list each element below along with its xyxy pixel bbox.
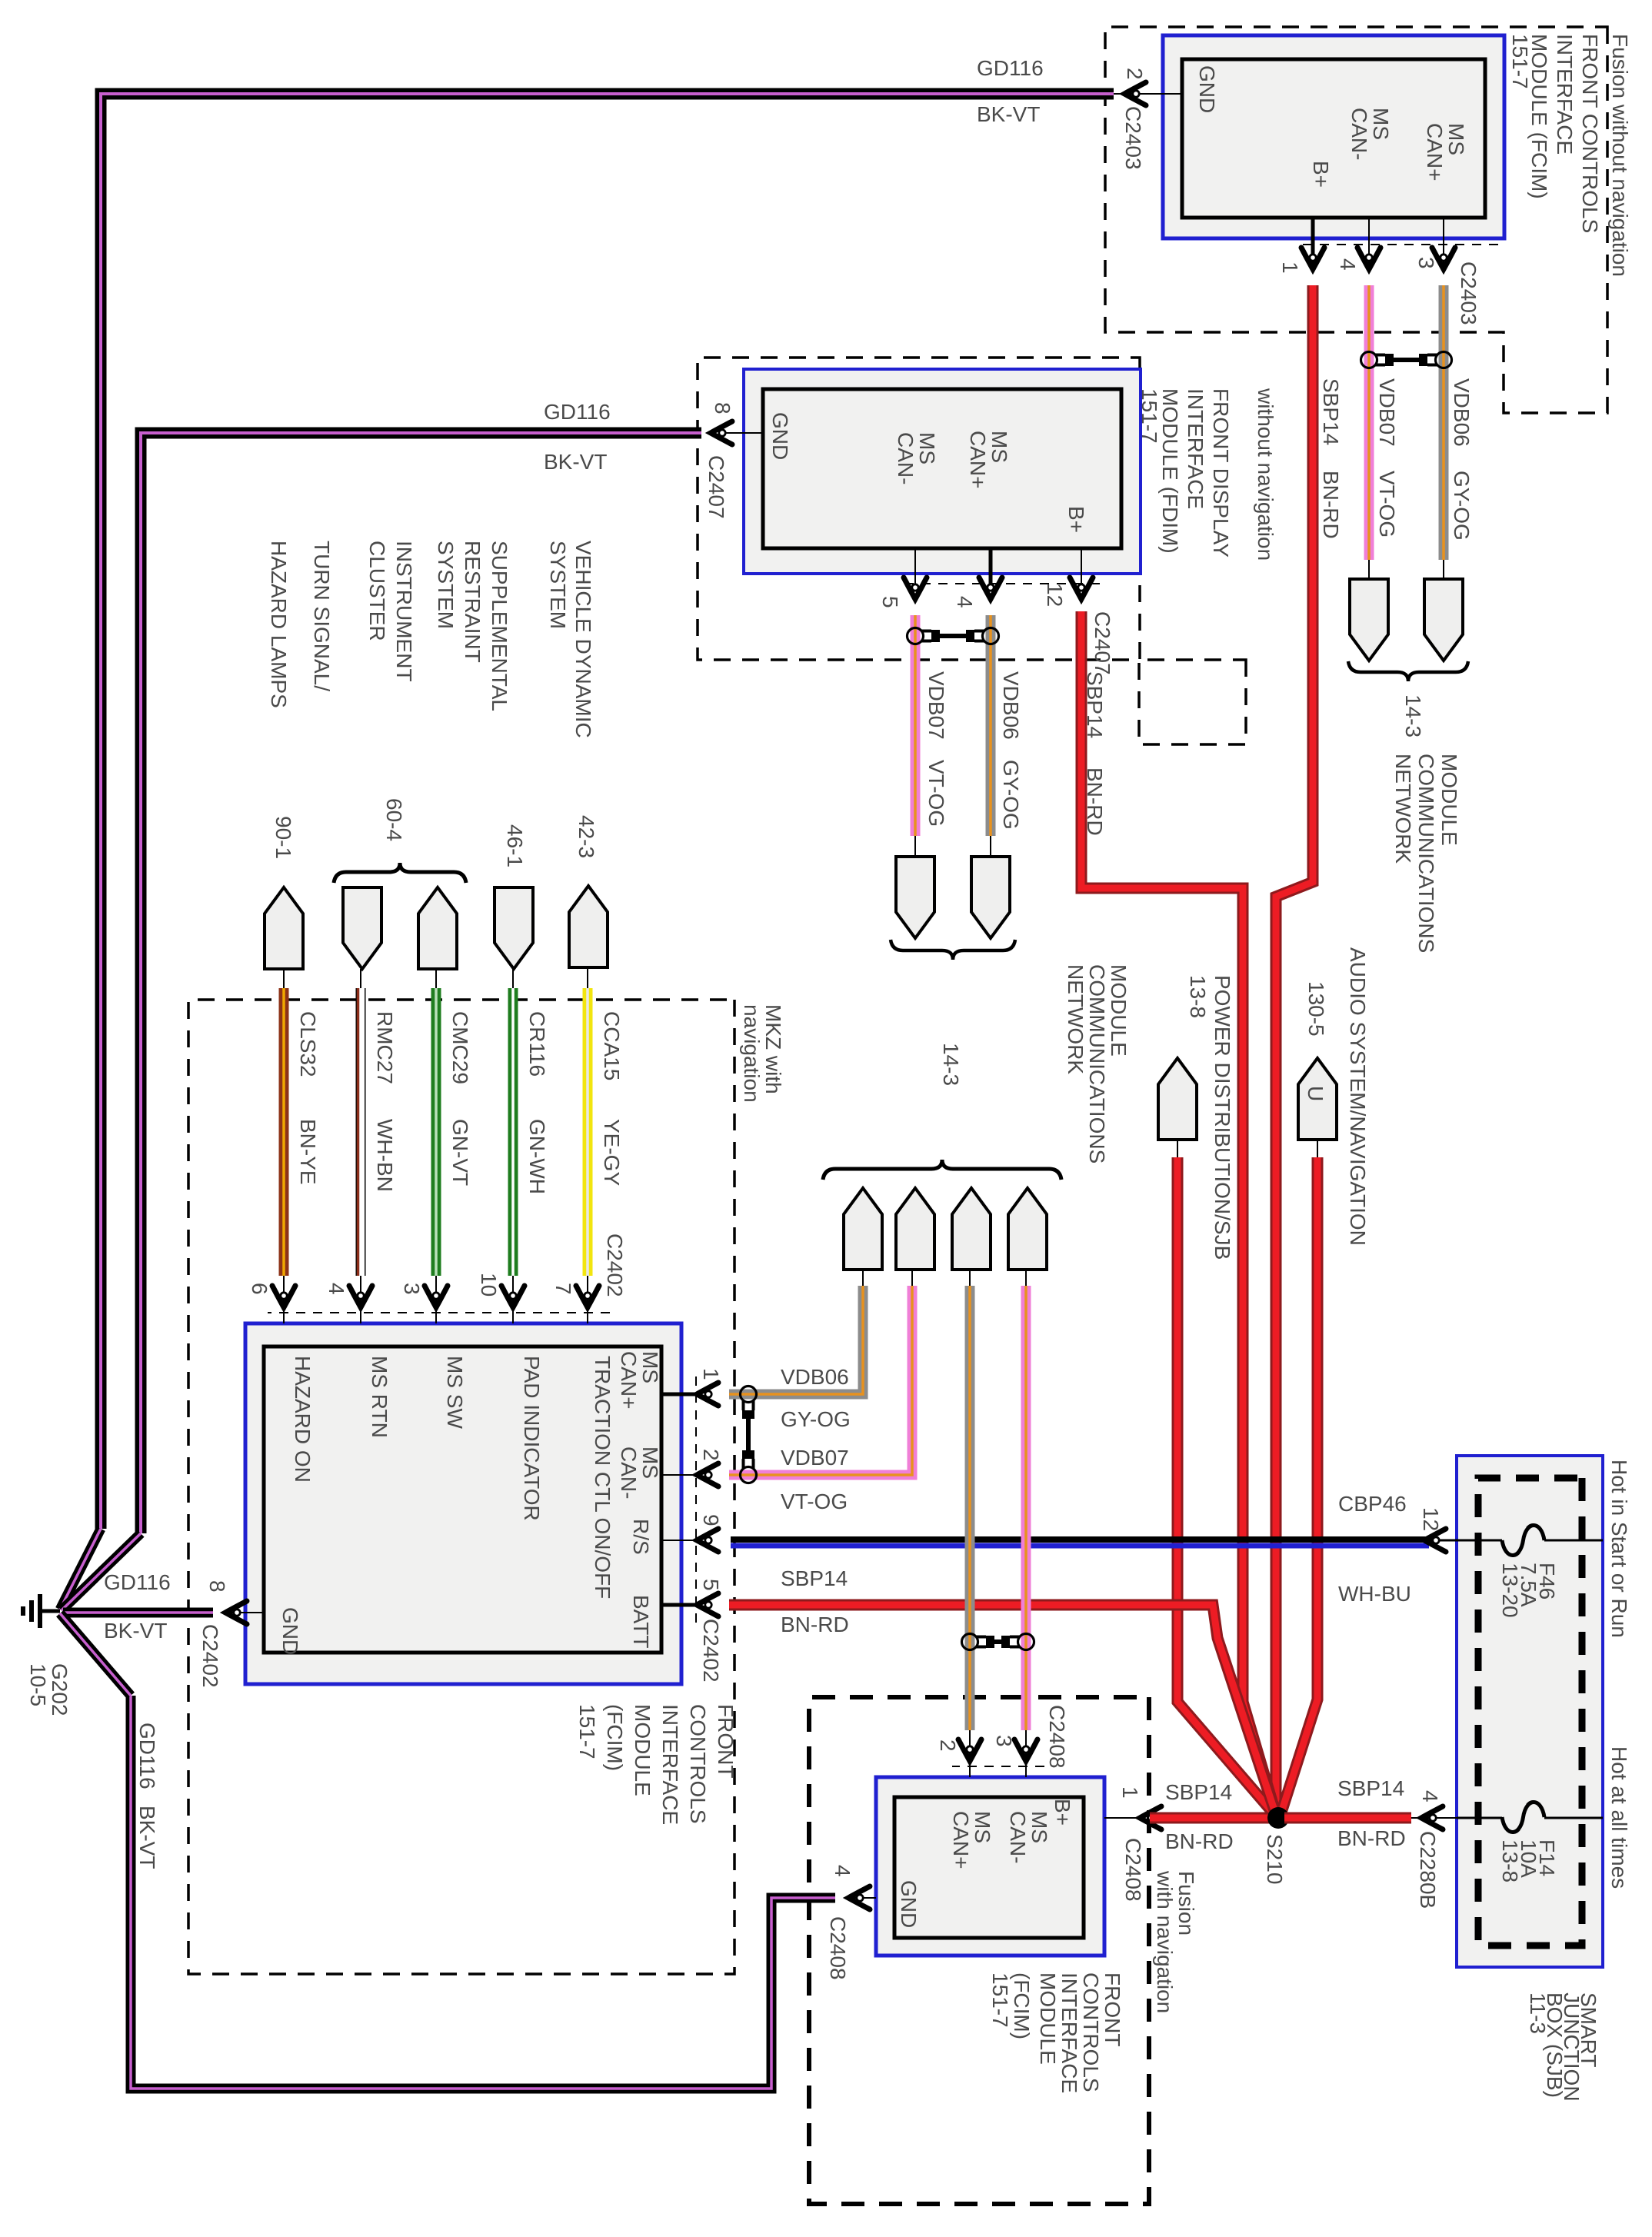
wire U3 BATT stub pin 5 bbox=[661, 1603, 698, 1607]
svg-text:CAN-: CAN- bbox=[1006, 1811, 1030, 1863]
svg-text:GND: GND bbox=[278, 1607, 302, 1655]
svg-text:1: 1 bbox=[1118, 1786, 1142, 1799]
off-page connector VDB07 to module comms network bbox=[1350, 579, 1388, 661]
svg-text:INTERFACE: INTERFACE bbox=[658, 1704, 682, 1825]
module U1 FCIM (Fusion without navigation) blue box bbox=[1163, 35, 1504, 238]
svg-text:10-5: 10-5 bbox=[26, 1663, 50, 1706]
wire CBP46 WH-BU R/S bbox=[731, 1536, 1429, 1543]
svg-text:VT-OG: VT-OG bbox=[924, 760, 948, 827]
svg-text:151-7: 151-7 bbox=[575, 1704, 599, 1759]
svg-text:Fusion: Fusion bbox=[1174, 1871, 1198, 1936]
wire GD116 BK-VT from U3 GND bbox=[63, 1608, 213, 1618]
svg-text:1: 1 bbox=[1278, 261, 1302, 274]
svg-text:SYSTEM: SYSTEM bbox=[434, 541, 458, 629]
wire CR116 GN-WH bbox=[508, 988, 518, 1276]
svg-text:13-20: 13-20 bbox=[1498, 1563, 1522, 1618]
svg-text:TURN SIGNAL/: TURN SIGNAL/ bbox=[310, 541, 334, 691]
connector C2403 dashed line bbox=[1298, 244, 1498, 245]
svg-text:MS RTN: MS RTN bbox=[368, 1356, 391, 1438]
svg-text:SBP14: SBP14 bbox=[1337, 1776, 1404, 1800]
wire GD116 BK-VT from U2 GND bbox=[141, 433, 701, 1533]
wire VDB07 VT-OG to pentagon bbox=[729, 1286, 912, 1475]
wire VDB06 GY-OG to pentagon bbox=[729, 1286, 863, 1394]
svg-text:C2408: C2408 bbox=[1121, 1838, 1145, 1902]
svg-text:3: 3 bbox=[400, 1283, 424, 1295]
svg-text:151-7: 151-7 bbox=[1508, 34, 1532, 89]
svg-text:C2403: C2403 bbox=[1457, 261, 1480, 325]
wire U4 GND stub pin 4 bbox=[850, 1897, 876, 1899]
svg-text:BK-VT: BK-VT bbox=[544, 450, 607, 474]
svg-text:13-8: 13-8 bbox=[1498, 1839, 1522, 1882]
svg-text:C2408: C2408 bbox=[826, 1916, 850, 1980]
svg-text:SBP14: SBP14 bbox=[1083, 671, 1107, 738]
svg-text:6: 6 bbox=[248, 1283, 271, 1295]
module U2 inner box bbox=[763, 389, 1121, 548]
connector C2407 dashed line bbox=[902, 583, 1100, 584]
svg-text:MODULE (FDIM): MODULE (FDIM) bbox=[1158, 388, 1182, 554]
fuse F46 7.5A bbox=[1504, 1526, 1543, 1556]
svg-text:46-1: 46-1 bbox=[503, 824, 527, 867]
svg-text:POWER DISTRIBUTION/SJB: POWER DISTRIBUTION/SJB bbox=[1211, 975, 1234, 1260]
wire SBP14 BN-RD power distribution to S210 bbox=[1177, 1140, 1178, 1157]
svg-text:VDB07: VDB07 bbox=[781, 1446, 849, 1470]
svg-text:SBP14: SBP14 bbox=[781, 1566, 848, 1590]
off-page connector VDB07 (U2) bbox=[896, 857, 934, 938]
off-page connector VDB06 to U3 pin1 bbox=[844, 1188, 882, 1270]
svg-text:12: 12 bbox=[1043, 583, 1067, 607]
svg-text:TRACTION CTL ON/OFF: TRACTION CTL ON/OFF bbox=[591, 1356, 615, 1599]
svg-text:COMMUNICATIONS: COMMUNICATIONS bbox=[1414, 754, 1438, 953]
wire U1 GND stub bbox=[1114, 93, 1182, 95]
svg-text:MODULE: MODULE bbox=[631, 1704, 654, 1796]
wire RMC27 WH-BN bbox=[360, 969, 361, 988]
svg-text:5: 5 bbox=[699, 1579, 723, 1591]
svg-text:MS: MS bbox=[1444, 123, 1468, 155]
wire inside SJB to F14 bbox=[1457, 1817, 1603, 1819]
connector C2408 dashed line bbox=[952, 1766, 1044, 1767]
wire U2 B+ stub pin 12 bbox=[1081, 548, 1082, 591]
twisted pair symbol U3 pins 1-2 bbox=[741, 1386, 757, 1403]
svg-text:MS: MS bbox=[1369, 108, 1393, 140]
svg-text:151-7: 151-7 bbox=[988, 1972, 1012, 2028]
wire VDB07 VT-OG (U2 pin5) bbox=[911, 615, 921, 836]
wire GD116 BK-VT from U1 GND bbox=[101, 94, 1114, 1529]
svg-text:C2407: C2407 bbox=[1091, 611, 1114, 675]
off-page connector CLS32 bbox=[265, 887, 303, 969]
wire U2 GND stub pin 8 bbox=[725, 432, 763, 434]
SJB inner heavy dashed box bbox=[1478, 1478, 1582, 1946]
svg-text:BN-RD: BN-RD bbox=[1083, 767, 1107, 836]
svg-text:90-1: 90-1 bbox=[271, 816, 295, 859]
wire CLS32 BN-YE bbox=[279, 988, 289, 1276]
smart junction box SJB blue box bbox=[1457, 1456, 1603, 1967]
svg-text:151-7: 151-7 bbox=[1137, 388, 1161, 444]
svg-text:INTERFACE: INTERFACE bbox=[1184, 388, 1207, 509]
off-page connector VDB06 (U2) bbox=[971, 857, 1010, 938]
svg-text:VDB06: VDB06 bbox=[1450, 378, 1474, 447]
svg-text:U: U bbox=[1304, 1086, 1327, 1101]
svg-text:BN-RD: BN-RD bbox=[1337, 1826, 1406, 1850]
svg-text:7: 7 bbox=[551, 1283, 575, 1295]
svg-text:9: 9 bbox=[699, 1514, 723, 1526]
off-page connector CCA15 bbox=[569, 886, 608, 967]
svg-text:GN-WH: GN-WH bbox=[525, 1119, 549, 1194]
svg-text:BN-RD: BN-RD bbox=[1165, 1829, 1234, 1853]
svg-text:G202: G202 bbox=[48, 1663, 72, 1716]
wire CBP46 inside SJB to F46 bbox=[1429, 1540, 1603, 1542]
svg-text:CLUSTER: CLUSTER bbox=[365, 541, 389, 641]
FCIM without navigation dashed box U1 outline bbox=[1105, 27, 1607, 413]
svg-text:CBP46: CBP46 bbox=[1338, 1492, 1407, 1516]
svg-text:R/S: R/S bbox=[629, 1519, 653, 1555]
svg-text:BATT: BATT bbox=[629, 1595, 653, 1648]
svg-text:MS: MS bbox=[638, 1446, 662, 1479]
svg-text:MS SW: MS SW bbox=[443, 1356, 467, 1429]
wire U3 GND stub pin 8 bbox=[227, 1612, 264, 1613]
wire GD116 BK-VT from U4 GND bbox=[131, 1696, 835, 2089]
svg-text:MS: MS bbox=[971, 1811, 994, 1843]
svg-text:FRONT CONTROLS: FRONT CONTROLS bbox=[1578, 34, 1602, 233]
svg-text:GD116: GD116 bbox=[104, 1570, 171, 1594]
fuse F14 10A bbox=[1504, 1803, 1543, 1833]
svg-text:BK-VT: BK-VT bbox=[135, 1806, 159, 1869]
svg-text:12: 12 bbox=[1419, 1507, 1443, 1531]
wire GD116 diagonal to G202 (U2) bbox=[62, 1533, 141, 1610]
off-page connector CMC29 bbox=[418, 887, 457, 969]
svg-text:FRONT DISPLAY: FRONT DISPLAY bbox=[1209, 388, 1233, 558]
svg-text:CAN-: CAN- bbox=[1347, 108, 1371, 160]
svg-text:2: 2 bbox=[699, 1449, 723, 1461]
svg-text:CAN-: CAN- bbox=[894, 432, 918, 484]
svg-text:SUPPLEMENTAL: SUPPLEMENTAL bbox=[488, 541, 511, 711]
wire CCA15 YE-GY bbox=[583, 988, 593, 1276]
connector C2402 dashed line (top pins) bbox=[695, 1376, 697, 1623]
wire U3 R/S stub pin 9 bbox=[661, 1540, 698, 1541]
wire SBP14 BN-RD from U2 B+ to S210 bbox=[1081, 611, 1275, 1812]
module U2 FDIM blue box bbox=[744, 369, 1141, 574]
wire U4 B+ stub pin 1 bbox=[1104, 1817, 1141, 1819]
svg-text:without navigation: without navigation bbox=[1254, 388, 1277, 561]
svg-text:FRONT: FRONT bbox=[714, 1704, 738, 1778]
svg-text:MODULE: MODULE bbox=[1437, 754, 1461, 846]
svg-text:MKZ with: MKZ with bbox=[761, 1004, 785, 1094]
svg-text:GD116: GD116 bbox=[977, 56, 1044, 80]
svg-text:with navigation: with navigation bbox=[1153, 1870, 1177, 2013]
svg-text:RESTRAINT: RESTRAINT bbox=[461, 541, 485, 663]
brace 4 connectors from 14-3 bbox=[823, 1160, 1061, 1180]
brace group to page 14-3 bbox=[1348, 661, 1468, 681]
svg-text:SBP14: SBP14 bbox=[1319, 378, 1343, 445]
svg-text:INTERFACE: INTERFACE bbox=[1057, 1972, 1081, 2093]
svg-text:2: 2 bbox=[1123, 68, 1147, 80]
off-page connector SBP14 power distribution bbox=[1158, 1058, 1197, 1140]
wire SBP14 BN-RD U4 B+ to S210 bbox=[1150, 1813, 1271, 1824]
svg-text:VDB06: VDB06 bbox=[781, 1365, 849, 1389]
svg-text:11-3: 11-3 bbox=[1526, 1992, 1550, 2034]
svg-text:B+: B+ bbox=[1051, 1799, 1074, 1826]
svg-text:3: 3 bbox=[992, 1735, 1016, 1747]
wire U1 B+ stub pin 1 bbox=[1311, 218, 1315, 268]
svg-text:SBP14: SBP14 bbox=[1165, 1780, 1232, 1804]
wire SBP14 BN-RD from U1 B+ to S210 bbox=[1276, 285, 1313, 1815]
svg-text:CLS32: CLS32 bbox=[296, 1011, 320, 1077]
svg-text:130-5: 130-5 bbox=[1304, 981, 1328, 1037]
svg-text:GY-OG: GY-OG bbox=[781, 1407, 851, 1431]
svg-text:4: 4 bbox=[831, 1865, 854, 1877]
svg-text:GD116: GD116 bbox=[135, 1723, 159, 1789]
off-page connector RMC27 bbox=[343, 887, 381, 969]
svg-text:1: 1 bbox=[699, 1368, 723, 1380]
svg-text:SYSTEM: SYSTEM bbox=[546, 541, 570, 629]
svg-text:BK-VT: BK-VT bbox=[977, 102, 1040, 126]
wire SBP14 BN-RD audio system to S210 bbox=[1317, 1140, 1318, 1157]
module U3 inner box bbox=[264, 1347, 661, 1653]
wire U2 MS CAN+ stub pin 4 bbox=[989, 548, 993, 591]
Fusion with navigation FCIM dashed box U4 outline bbox=[809, 1697, 1149, 2204]
svg-text:VDB06: VDB06 bbox=[999, 671, 1023, 740]
svg-text:14-3: 14-3 bbox=[939, 1043, 963, 1086]
svg-text:C2407: C2407 bbox=[704, 455, 728, 519]
wire VDB07 VT-OG (U1 pin4) bbox=[1364, 285, 1374, 560]
svg-text:CONTROLS: CONTROLS bbox=[1079, 1972, 1103, 2092]
svg-text:BK-VT: BK-VT bbox=[104, 1619, 167, 1643]
svg-text:BN-RD: BN-RD bbox=[1319, 471, 1343, 539]
svg-text:CAN+: CAN+ bbox=[1423, 123, 1447, 181]
wire SBP14 BN-RD S210 to SJB F14 bbox=[1284, 1813, 1411, 1824]
svg-text:VT-OG: VT-OG bbox=[1375, 471, 1399, 538]
svg-text:4: 4 bbox=[1418, 1790, 1442, 1803]
svg-text:GND: GND bbox=[897, 1880, 921, 1928]
wire U2 MS CAN- stub pin 5 bbox=[914, 548, 916, 591]
svg-text:AUDIO SYSTEM/NAVIGATION: AUDIO SYSTEM/NAVIGATION bbox=[1346, 947, 1370, 1246]
module U4 inner box bbox=[894, 1797, 1084, 1938]
svg-text:CAN+: CAN+ bbox=[949, 1811, 973, 1869]
wire VDB06 GY-OG (U1 pin3) bbox=[1439, 285, 1449, 560]
svg-text:VT-OG: VT-OG bbox=[781, 1490, 848, 1513]
svg-text:CAN-: CAN- bbox=[617, 1446, 641, 1499]
MKZ FCIM dashed box U3 outline bbox=[188, 1000, 734, 1974]
svg-text:2: 2 bbox=[936, 1739, 960, 1752]
svg-text:HAZARD LAMPS: HAZARD LAMPS bbox=[267, 541, 291, 708]
svg-text:4: 4 bbox=[325, 1283, 348, 1295]
svg-text:WH-BN: WH-BN bbox=[373, 1119, 397, 1192]
svg-text:C2402: C2402 bbox=[603, 1233, 627, 1297]
wire U3 MS CAN- stub pin 2 bbox=[661, 1474, 698, 1476]
svg-text:60-4: 60-4 bbox=[382, 798, 406, 841]
svg-text:4: 4 bbox=[1336, 258, 1360, 271]
svg-text:GY-OG: GY-OG bbox=[999, 760, 1023, 830]
off-page connector VDB07 to U4 pin3 bbox=[1008, 1188, 1047, 1270]
twisted pair symbol U4 pins bbox=[1018, 1634, 1034, 1650]
svg-text:Hot at all times: Hot at all times bbox=[1607, 1746, 1631, 1889]
svg-text:INSTRUMENT: INSTRUMENT bbox=[392, 541, 416, 682]
svg-text:S210: S210 bbox=[1263, 1834, 1287, 1884]
svg-text:4: 4 bbox=[953, 596, 977, 608]
svg-text:FRONT: FRONT bbox=[1101, 1972, 1124, 2046]
splice S210 bbox=[1267, 1807, 1289, 1829]
FDIM dashed connector extension box bbox=[1139, 660, 1246, 744]
svg-text:MS: MS bbox=[1028, 1811, 1051, 1843]
svg-text:B+: B+ bbox=[1064, 506, 1088, 533]
wire VDB07 VT-OG to U4 pin3 bbox=[1021, 1286, 1031, 1730]
svg-text:INTERFACE: INTERFACE bbox=[1553, 34, 1577, 155]
svg-text:B+: B+ bbox=[1309, 161, 1333, 188]
svg-text:5: 5 bbox=[878, 596, 902, 608]
module U4 FCIM (Fusion with navigation) blue box bbox=[876, 1777, 1104, 1956]
module U3 MKZ FCIM blue box bbox=[245, 1323, 681, 1684]
wire GD116 diagonal to G202 bbox=[60, 1529, 101, 1610]
brace U2 pair to 14-3 bbox=[891, 940, 1015, 960]
svg-text:VDB07: VDB07 bbox=[924, 671, 948, 740]
svg-text:(FCIM): (FCIM) bbox=[1010, 1972, 1034, 2039]
brace 60-4 group bbox=[334, 863, 466, 883]
off-page connector SBP14 audio system U bbox=[1298, 1058, 1337, 1140]
svg-text:GND: GND bbox=[1195, 65, 1219, 113]
svg-text:MS: MS bbox=[638, 1351, 662, 1383]
svg-text:RMC27: RMC27 bbox=[373, 1011, 397, 1084]
wire VDB06 GY-OG to U4 pin2 bbox=[965, 1286, 975, 1730]
svg-text:14-3: 14-3 bbox=[1401, 694, 1425, 737]
svg-text:HAZARD ON: HAZARD ON bbox=[291, 1356, 315, 1483]
svg-text:navigation: navigation bbox=[740, 1004, 764, 1103]
svg-text:42-3: 42-3 bbox=[575, 815, 598, 858]
svg-text:8: 8 bbox=[205, 1580, 229, 1593]
svg-text:GND: GND bbox=[768, 412, 792, 460]
off-page connector VDB06 to module comms network bbox=[1424, 579, 1463, 661]
connector arrow pin 2 C2403 bbox=[1124, 82, 1146, 105]
svg-text:MODULE: MODULE bbox=[1036, 1972, 1060, 2065]
svg-text:GY-OG: GY-OG bbox=[1450, 471, 1474, 541]
svg-text:NETWORK: NETWORK bbox=[1391, 754, 1415, 864]
svg-text:8: 8 bbox=[711, 402, 734, 414]
svg-text:C2402: C2402 bbox=[198, 1624, 222, 1688]
svg-text:C2280B: C2280B bbox=[1416, 1831, 1440, 1909]
off-page connector VDB07 to U3 pin2 bbox=[896, 1188, 934, 1270]
wire U1 MS CAN+ stub pin 3 bbox=[1443, 218, 1444, 268]
svg-text:10: 10 bbox=[477, 1273, 501, 1297]
svg-text:CONTROLS: CONTROLS bbox=[686, 1704, 710, 1824]
svg-text:GD116: GD116 bbox=[544, 400, 611, 424]
wire U3 MS CAN+ stub pin 1 bbox=[661, 1393, 698, 1396]
wire VDB06 GY-OG (U2 pin4) bbox=[986, 615, 996, 836]
svg-text:CR116: CR116 bbox=[525, 1011, 549, 1077]
twisted pair symbol VDB06/VDB07 (U2) bbox=[983, 628, 999, 644]
svg-text:13-8: 13-8 bbox=[1186, 975, 1210, 1018]
svg-text:MS: MS bbox=[988, 431, 1011, 463]
svg-text:PAD INDICATOR: PAD INDICATOR bbox=[520, 1356, 544, 1521]
svg-text:Hot in Start or Run: Hot in Start or Run bbox=[1607, 1460, 1631, 1638]
svg-text:MS: MS bbox=[915, 432, 939, 464]
svg-text:C2402: C2402 bbox=[699, 1619, 723, 1683]
svg-text:VEHICLE DYNAMIC: VEHICLE DYNAMIC bbox=[571, 541, 595, 738]
svg-text:MODULE: MODULE bbox=[1107, 964, 1131, 1057]
off-page connector VDB06 to U4 pin2 bbox=[952, 1188, 991, 1270]
svg-text:C2403: C2403 bbox=[1121, 106, 1145, 170]
svg-text:Fusion without navigation: Fusion without navigation bbox=[1608, 34, 1632, 277]
svg-text:GN-VT: GN-VT bbox=[448, 1119, 472, 1186]
ground G202 symbol bbox=[40, 1610, 60, 1613]
wire GD116 diagonal to G202 (U4) bbox=[60, 1613, 131, 1696]
FDIM dashed box U2 outline bbox=[698, 358, 1140, 660]
wire SBP14 BN-RD from U3 BATT to S210 bbox=[729, 1605, 1275, 1813]
svg-text:NETWORK: NETWORK bbox=[1064, 964, 1087, 1074]
svg-text:(FCIM): (FCIM) bbox=[603, 1704, 627, 1771]
connector C2402 dashed line (left pins) bbox=[268, 1312, 610, 1313]
wire U1 MS CAN- stub pin 4 bbox=[1368, 218, 1370, 268]
svg-text:CAN+: CAN+ bbox=[617, 1351, 641, 1409]
svg-text:3: 3 bbox=[1414, 257, 1438, 269]
svg-text:BN-YE: BN-YE bbox=[296, 1119, 320, 1185]
off-page connector CR116 bbox=[495, 887, 533, 969]
module U1 inner box bbox=[1182, 59, 1485, 218]
twisted pair symbol VDB06/VDB07 bbox=[1436, 352, 1452, 368]
wire CMC29 GN-VT bbox=[431, 988, 441, 1276]
svg-text:WH-BU: WH-BU bbox=[1338, 1582, 1411, 1606]
svg-text:CMC29: CMC29 bbox=[448, 1011, 472, 1084]
svg-text:CAN+: CAN+ bbox=[966, 431, 990, 488]
svg-text:C2408: C2408 bbox=[1045, 1705, 1069, 1769]
svg-text:BN-RD: BN-RD bbox=[781, 1613, 849, 1636]
svg-text:VDB07: VDB07 bbox=[1375, 378, 1399, 447]
svg-text:CCA15: CCA15 bbox=[600, 1011, 624, 1080]
svg-text:COMMUNICATIONS: COMMUNICATIONS bbox=[1085, 964, 1109, 1163]
svg-text:YE-GY: YE-GY bbox=[600, 1119, 624, 1186]
